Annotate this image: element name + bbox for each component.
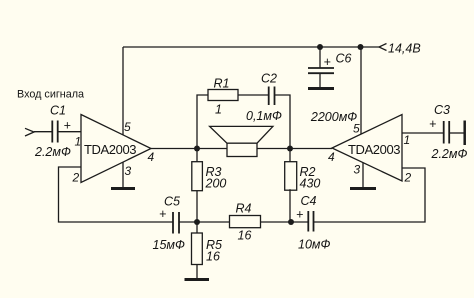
- wire input to C1: [34, 131, 52, 133]
- svg-text:+: +: [324, 55, 331, 69]
- wire main output: [151, 148, 332, 150]
- supply input arrow: [379, 44, 387, 51]
- wire node to R2: [289, 149, 291, 163]
- svg-text:2: 2: [72, 171, 80, 185]
- svg-text:15мФ: 15мФ: [153, 238, 185, 252]
- svg-text:2.2мФ: 2.2мФ: [431, 147, 468, 161]
- signal input arrow: [25, 128, 34, 136]
- svg-text:2200мФ: 2200мФ: [310, 110, 357, 124]
- svg-text:200: 200: [205, 177, 227, 191]
- wire pin2 loop U1: [59, 167, 174, 222]
- svg-text:14,4В: 14,4В: [388, 42, 421, 56]
- resistor R3: [192, 162, 203, 191]
- svg-text:16: 16: [206, 250, 220, 264]
- speaker body: [227, 143, 257, 156]
- svg-text:1: 1: [215, 103, 222, 117]
- wire top supply rail: [123, 46, 379, 48]
- wire C3 to output terminal: [449, 132, 464, 134]
- svg-text:C5: C5: [164, 195, 180, 209]
- svg-text:C3: C3: [434, 103, 450, 117]
- svg-text:+: +: [159, 207, 166, 221]
- resistor R2: [285, 162, 297, 191]
- svg-text:+: +: [64, 118, 71, 132]
- svg-text:+: +: [429, 117, 436, 131]
- capacitor C2: [269, 87, 275, 106]
- resistor R4: [230, 216, 261, 228]
- wire feedback left vertical: [197, 95, 208, 149]
- svg-text:4: 4: [148, 150, 155, 164]
- capacitor C3: [444, 121, 450, 144]
- svg-text:5: 5: [353, 122, 360, 136]
- svg-text:TDA2003: TDA2003: [84, 142, 136, 157]
- node output left: [194, 146, 200, 152]
- svg-text:2: 2: [404, 171, 412, 185]
- ground U2: [350, 187, 376, 190]
- svg-text:3: 3: [125, 164, 132, 178]
- wire C5 to R4: [179, 221, 229, 223]
- svg-text:10мФ: 10мФ: [298, 238, 330, 252]
- svg-text:C1: C1: [50, 104, 66, 118]
- svg-text:Вход сигнала: Вход сигнала: [17, 89, 84, 101]
- svg-text:1: 1: [404, 133, 411, 147]
- op-amp U2 TDA2003: [332, 115, 402, 182]
- svg-text:16: 16: [238, 229, 252, 243]
- ground U1: [111, 187, 135, 190]
- capacitor C6: [308, 68, 334, 73]
- capacitor C4: [308, 211, 313, 232]
- svg-text:R4: R4: [236, 202, 252, 216]
- svg-text:4: 4: [328, 150, 335, 164]
- svg-text:5: 5: [124, 120, 131, 134]
- svg-text:C6: C6: [336, 52, 352, 66]
- svg-text:C2: C2: [261, 72, 277, 86]
- wire C2 to right node: [275, 95, 291, 149]
- wire R5 to ground: [196, 265, 198, 279]
- wire R4 to C4: [261, 221, 309, 223]
- wire C4 to right amp pin2: [314, 168, 426, 222]
- node supply right amp: [358, 44, 364, 50]
- svg-text:430: 430: [300, 177, 321, 191]
- output terminal: [463, 121, 466, 146]
- ground R5: [185, 278, 210, 281]
- svg-text:C4: C4: [301, 194, 317, 208]
- wire R1 to C2: [238, 94, 269, 96]
- svg-text:R1: R1: [214, 77, 230, 91]
- op-amp U1 TDA2003: [81, 115, 151, 183]
- svg-text:1: 1: [75, 135, 82, 149]
- wire pin1 U2 to C3: [402, 132, 444, 134]
- capacitor C1: [52, 121, 57, 143]
- wire supply to C6: [319, 47, 321, 68]
- wire C6 to ground: [319, 73, 321, 87]
- wire R2 to bottom node: [289, 189, 291, 222]
- svg-text:2.2мФ: 2.2мФ: [34, 145, 71, 159]
- svg-text:0,1мФ: 0,1мФ: [246, 109, 282, 123]
- wire node to R3: [196, 149, 198, 163]
- wire C1 to pin1: [58, 131, 81, 133]
- wire right amp pin5 drop: [360, 47, 362, 134]
- ground C6: [308, 87, 334, 90]
- svg-text:+: +: [296, 208, 303, 222]
- wire pin3 U1 to ground: [122, 162, 124, 188]
- capacitor C5: [173, 212, 179, 234]
- resistor R1: [208, 90, 238, 101]
- node output right: [287, 146, 293, 152]
- node supply C6: [317, 44, 323, 50]
- wire node to R5: [196, 222, 198, 233]
- svg-text:3: 3: [354, 163, 361, 177]
- speaker cone: [210, 126, 273, 143]
- wire pin3 U2 to ground: [362, 163, 364, 188]
- node bottom right: [288, 219, 294, 225]
- svg-text:TDA2003: TDA2003: [348, 142, 400, 157]
- wire left amp pin5 drop: [122, 47, 124, 135]
- resistor R5: [192, 233, 203, 265]
- node bottom left: [194, 219, 200, 225]
- wire R3 to bottom node: [196, 191, 198, 222]
